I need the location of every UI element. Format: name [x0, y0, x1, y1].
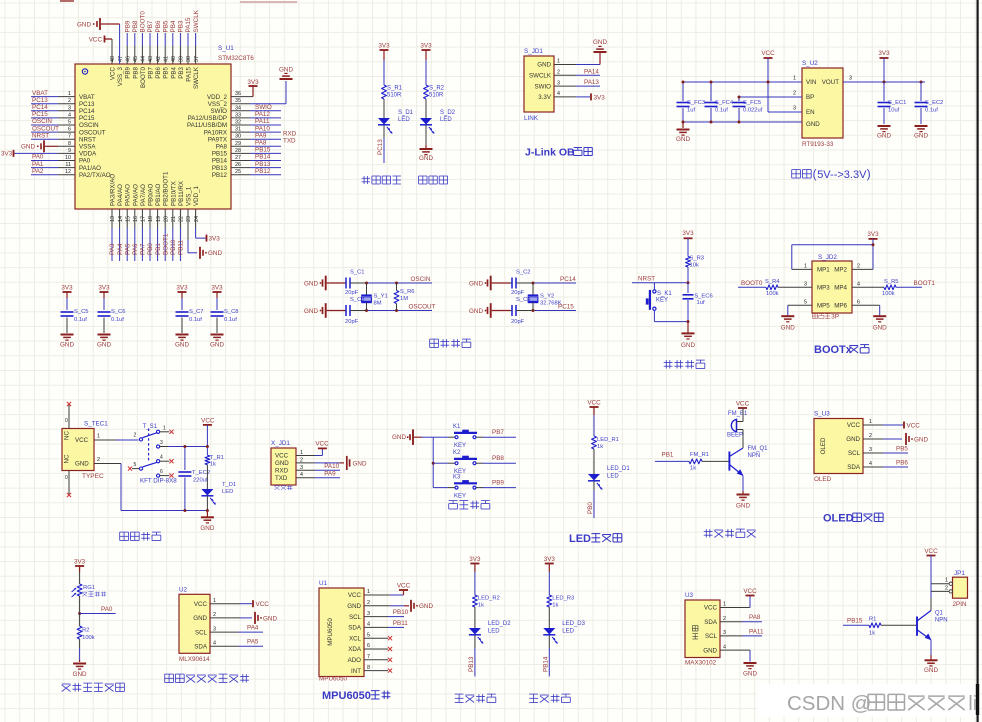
svg-text:VCC: VCC: [201, 417, 215, 424]
svg-text:VCC: VCC: [704, 605, 718, 612]
svg-text:KEY: KEY: [454, 443, 466, 449]
svg-text:21: 21: [171, 216, 177, 222]
svg-text:U2: U2: [179, 586, 188, 593]
svg-text:1k: 1k: [597, 444, 603, 450]
svg-text:37: 37: [194, 56, 200, 62]
svg-text:PB3: PB3: [178, 20, 185, 32]
svg-text:GND: GND: [304, 280, 318, 287]
svg-text:PC14: PC14: [79, 108, 95, 115]
svg-text:SCL: SCL: [349, 614, 362, 621]
svg-text:PA0: PA0: [101, 606, 113, 613]
svg-text:EN: EN: [806, 109, 815, 116]
svg-text:NRST: NRST: [32, 132, 49, 139]
svg-text:OSCOUT: OSCOUT: [32, 125, 59, 132]
svg-text:LED_R3: LED_R3: [552, 596, 574, 602]
svg-text:41: 41: [163, 56, 169, 62]
svg-text:VSSA: VSSA: [79, 144, 96, 151]
svg-text:PC14: PC14: [560, 276, 576, 283]
svg-text:PA5/AO: PA5/AO: [125, 184, 132, 206]
svg-text:4: 4: [367, 622, 370, 628]
svg-text:S_Y2: S_Y2: [540, 294, 554, 300]
svg-text:PA12: PA12: [255, 111, 270, 118]
svg-text:GND: GND: [75, 461, 89, 468]
svg-text:K1: K1: [453, 424, 461, 430]
svg-text:S_JD2: S_JD2: [818, 254, 837, 261]
svg-text:1k: 1k: [552, 603, 558, 609]
svg-text:GND: GND: [419, 603, 433, 610]
svg-text:S_EC2: S_EC2: [925, 100, 943, 106]
svg-text:PC15: PC15: [32, 111, 48, 118]
svg-text:510R: 510R: [387, 93, 402, 99]
svg-text:3V3: 3V3: [420, 43, 432, 50]
svg-text:GND: GND: [21, 144, 35, 151]
svg-text:J-Link OB: J-Link OB: [525, 147, 575, 159]
svg-text:K2: K2: [453, 450, 461, 456]
svg-text:PA10RX: PA10RX: [204, 129, 227, 136]
svg-text:PB8: PB8: [492, 455, 504, 462]
svg-text:PA7: PA7: [140, 243, 147, 255]
svg-text:S_EC1: S_EC1: [888, 100, 906, 106]
svg-text:16: 16: [133, 216, 139, 222]
svg-text:RG1: RG1: [83, 585, 95, 591]
svg-text:PB0: PB0: [147, 243, 154, 255]
svg-text:PA11/USB/DM: PA11/USB/DM: [187, 122, 227, 129]
svg-text:PB14: PB14: [255, 154, 271, 161]
svg-text:0.1uf: 0.1uf: [925, 108, 938, 114]
svg-text:U3: U3: [685, 592, 694, 599]
svg-text:GND: GND: [193, 615, 207, 622]
svg-text:PB10: PB10: [170, 239, 177, 255]
svg-text:5: 5: [804, 300, 807, 306]
svg-text:SWCLK: SWCLK: [193, 9, 200, 32]
svg-text:VCC: VCC: [89, 37, 103, 44]
svg-text:PA7/AO: PA7/AO: [140, 184, 147, 206]
svg-text:8: 8: [367, 665, 370, 671]
svg-text:1k: 1k: [869, 631, 875, 637]
svg-text:GND: GND: [263, 615, 277, 622]
svg-text:GND: GND: [175, 342, 189, 349]
svg-text:SWIO: SWIO: [211, 108, 228, 115]
svg-text:2: 2: [97, 457, 100, 463]
svg-text:3V3: 3V3: [378, 43, 390, 50]
svg-text:GND: GND: [924, 667, 938, 674]
svg-text:PB5: PB5: [162, 20, 169, 32]
svg-text:LED_D2: LED_D2: [488, 621, 511, 627]
svg-text:2PIN: 2PIN: [953, 601, 967, 608]
svg-text:FM_R1: FM_R1: [690, 452, 709, 458]
svg-text:PA3/RX/AO: PA3/RX/AO: [110, 174, 117, 206]
svg-text:GND: GND: [419, 155, 433, 162]
svg-text:JP1: JP1: [954, 570, 965, 577]
svg-text:RXD: RXD: [283, 130, 297, 137]
svg-text:GND: GND: [873, 324, 887, 331]
svg-text:3V3: 3V3: [209, 236, 221, 243]
svg-text:S_R5: S_R5: [884, 279, 899, 285]
svg-text:VCC: VCC: [761, 50, 775, 57]
svg-text:1k: 1k: [210, 462, 216, 468]
svg-text:OSCIN: OSCIN: [411, 276, 431, 283]
svg-text:1k: 1k: [690, 466, 696, 472]
svg-text:PB13: PB13: [212, 165, 228, 172]
svg-text:4: 4: [557, 91, 560, 97]
svg-text:S_C6: S_C6: [111, 309, 126, 315]
svg-text:3V3: 3V3: [61, 285, 73, 292]
svg-text:PA1/AO: PA1/AO: [79, 165, 101, 172]
svg-text:PB4: PB4: [170, 20, 177, 32]
svg-text:4: 4: [723, 644, 726, 650]
svg-text:19: 19: [156, 216, 162, 222]
svg-text:PA6/AO: PA6/AO: [132, 184, 139, 206]
svg-text:PC13: PC13: [377, 139, 384, 155]
svg-text:PA10: PA10: [255, 125, 270, 132]
svg-text:GND: GND: [846, 436, 860, 443]
svg-text:PB5: PB5: [163, 66, 170, 78]
svg-text:GND: GND: [279, 67, 293, 74]
svg-text:VCC: VCC: [924, 548, 938, 555]
svg-text:LED_R2: LED_R2: [478, 596, 500, 602]
svg-text:100k: 100k: [82, 635, 95, 641]
svg-text:LED: LED: [440, 117, 452, 123]
svg-text:20pF: 20pF: [511, 290, 525, 296]
svg-text:PB10: PB10: [393, 609, 409, 616]
svg-text:1M: 1M: [400, 296, 408, 302]
svg-text:0.022uf: 0.022uf: [743, 108, 763, 114]
svg-text:): ): [867, 169, 871, 181]
svg-text:GND: GND: [877, 133, 891, 140]
svg-text:SWCLK: SWCLK: [529, 73, 552, 80]
svg-text:3: 3: [213, 626, 216, 632]
svg-text:1: 1: [945, 578, 948, 584]
svg-text:10k: 10k: [690, 263, 699, 269]
svg-text:3V3: 3V3: [247, 79, 259, 86]
svg-text:43: 43: [148, 56, 154, 62]
svg-text:FM_Q1: FM_Q1: [748, 446, 769, 452]
svg-text:KFT DIP-8X8: KFT DIP-8X8: [140, 478, 177, 485]
svg-text:GND: GND: [97, 342, 111, 349]
svg-text:PB10/TX: PB10/TX: [170, 181, 177, 206]
svg-text:LINK: LINK: [524, 115, 539, 122]
svg-text:PB11: PB11: [178, 240, 185, 255]
svg-text:PC15: PC15: [79, 115, 95, 122]
svg-text:S_JD1: S_JD1: [524, 48, 543, 55]
svg-text:MPU6050: MPU6050: [322, 690, 371, 702]
svg-text:OSCOUT: OSCOUT: [409, 304, 436, 311]
svg-text:1: 1: [869, 419, 872, 425]
svg-text:SDA: SDA: [348, 625, 362, 632]
svg-text:LED_D1: LED_D1: [607, 466, 630, 472]
svg-text:XDA: XDA: [348, 646, 362, 653]
svg-text:1: 1: [163, 425, 166, 431]
svg-text:PB9: PB9: [124, 20, 131, 32]
svg-text:MP4: MP4: [834, 285, 847, 292]
svg-text:PC15: PC15: [558, 304, 574, 311]
svg-text:PA4: PA4: [117, 243, 124, 255]
svg-text:PB12: PB12: [255, 168, 271, 175]
svg-text:VCC: VCC: [256, 601, 270, 608]
svg-text:LED: LED: [562, 629, 574, 635]
svg-text:GND: GND: [681, 342, 695, 349]
svg-text:GND: GND: [806, 121, 820, 128]
svg-text:VCC: VCC: [743, 588, 757, 595]
svg-text:VCC: VCC: [194, 601, 208, 608]
svg-text:S_D2: S_D2: [440, 110, 456, 116]
svg-text:3V3: 3V3: [544, 556, 556, 563]
svg-text:3V3: 3V3: [878, 50, 890, 57]
svg-text:TYPEC: TYPEC: [82, 473, 104, 480]
svg-text:S_R3: S_R3: [690, 256, 705, 262]
svg-text:VCC: VCC: [348, 592, 362, 599]
svg-text:17: 17: [141, 216, 147, 222]
svg-text:GND: GND: [60, 342, 74, 349]
svg-text:PA8: PA8: [255, 140, 267, 147]
svg-text:VSS_2: VSS_2: [208, 101, 228, 108]
svg-text:3: 3: [849, 76, 852, 82]
svg-text:PB1: PB1: [662, 452, 674, 459]
svg-text:PA3: PA3: [109, 243, 116, 255]
svg-text:6: 6: [367, 643, 370, 649]
svg-text:PA9: PA9: [324, 470, 336, 477]
svg-text:0: 0: [65, 418, 68, 424]
svg-text:MP6: MP6: [834, 303, 847, 310]
svg-text:PB14: PB14: [212, 158, 228, 165]
svg-text:PA11: PA11: [749, 628, 764, 635]
svg-text:S_EC6: S_EC6: [694, 293, 712, 299]
svg-text:22: 22: [179, 216, 185, 222]
svg-text:PA9TX: PA9TX: [208, 136, 227, 143]
svg-text:VBAT: VBAT: [32, 90, 48, 97]
svg-text:PB9: PB9: [125, 66, 132, 78]
svg-text:VDD_2: VDD_2: [207, 94, 228, 101]
svg-text:PA6: PA6: [132, 243, 139, 255]
svg-text:3: 3: [160, 440, 163, 446]
svg-text:PA10: PA10: [324, 463, 339, 470]
svg-text:S_U3: S_U3: [814, 411, 830, 418]
svg-text:T_S1: T_S1: [143, 424, 158, 430]
svg-text:OSCIN: OSCIN: [79, 122, 99, 129]
svg-text:GND: GND: [676, 136, 690, 143]
svg-text:10uf: 10uf: [888, 108, 900, 114]
svg-text:VDD_1: VDD_1: [193, 185, 200, 206]
svg-text:S_C4: S_C4: [516, 297, 531, 303]
svg-text:NC: NC: [64, 454, 71, 463]
svg-text:GND: GND: [537, 62, 551, 69]
svg-text:S_Y1: S_Y1: [374, 294, 388, 300]
svg-text:SWIO: SWIO: [535, 83, 552, 90]
svg-text:0.1uf: 0.1uf: [74, 317, 87, 323]
svg-text:3V3: 3V3: [682, 230, 694, 237]
svg-text:PB15: PB15: [847, 618, 863, 625]
svg-text:44: 44: [141, 56, 147, 62]
svg-text:PB6: PB6: [896, 460, 908, 467]
svg-text:MLX90614: MLX90614: [179, 656, 210, 663]
svg-text:3: 3: [869, 447, 872, 453]
svg-text:S_R4: S_R4: [765, 279, 780, 285]
svg-text:SCL: SCL: [848, 450, 861, 457]
svg-text:PB1: PB1: [155, 243, 162, 255]
svg-text:CSDN @: CSDN @: [787, 692, 872, 715]
svg-text:100k: 100k: [766, 291, 779, 297]
svg-text:RXD: RXD: [275, 468, 289, 475]
svg-text:2: 2: [557, 70, 560, 76]
svg-text:BOOT0: BOOT0: [140, 66, 147, 88]
svg-text:NRST: NRST: [638, 276, 655, 283]
svg-text:VOUT: VOUT: [822, 79, 839, 86]
svg-text:MAX30102: MAX30102: [685, 660, 717, 667]
svg-text:S_C1: S_C1: [350, 270, 365, 276]
svg-text:PB4: PB4: [170, 66, 177, 78]
svg-text:MP3: MP3: [817, 285, 830, 292]
svg-text:PB8: PB8: [132, 66, 139, 78]
svg-text:GND: GND: [469, 308, 483, 315]
svg-text:SDA: SDA: [704, 619, 718, 626]
svg-text:KEY: KEY: [454, 494, 466, 500]
svg-text:3: 3: [804, 282, 807, 288]
svg-text:NC: NC: [64, 431, 71, 440]
svg-text:PA0: PA0: [32, 154, 44, 161]
svg-text:LED: LED: [488, 629, 500, 635]
svg-text:NRST: NRST: [79, 136, 96, 143]
svg-text:S_U1: S_U1: [218, 45, 234, 52]
svg-text:MP2: MP2: [834, 267, 847, 274]
svg-text:3V3: 3V3: [176, 285, 188, 292]
svg-text:SDA: SDA: [194, 644, 208, 651]
svg-text:GND: GND: [77, 21, 91, 28]
svg-text:GND: GND: [593, 39, 607, 46]
svg-text:SWCLK: SWCLK: [193, 66, 200, 89]
svg-text:BOOT1: BOOT1: [162, 233, 169, 255]
svg-text:VCC: VCC: [275, 453, 289, 460]
svg-text:PB8: PB8: [132, 20, 139, 32]
svg-text:VCC: VCC: [110, 66, 117, 80]
svg-text:PB14: PB14: [542, 656, 549, 672]
svg-text:GND: GND: [200, 525, 214, 532]
svg-text:VCC: VCC: [75, 437, 89, 444]
svg-text:220uf: 220uf: [193, 478, 208, 484]
svg-text:S_C5: S_C5: [74, 309, 89, 315]
svg-text:PA1: PA1: [32, 161, 44, 168]
svg-text:15: 15: [125, 216, 131, 222]
svg-text:510R: 510R: [429, 93, 444, 99]
svg-text:PB12: PB12: [212, 172, 228, 179]
svg-text:OSCOUT: OSCOUT: [79, 129, 106, 136]
svg-text:1uf: 1uf: [687, 108, 695, 114]
svg-text:6: 6: [160, 469, 163, 475]
svg-text:T_D1: T_D1: [222, 482, 236, 488]
svg-text:PA5: PA5: [124, 243, 131, 255]
svg-text:0.1uf: 0.1uf: [189, 317, 202, 323]
svg-text:U1: U1: [319, 580, 328, 587]
svg-text:RT9193-33: RT9193-33: [802, 141, 834, 148]
svg-text:SCL: SCL: [705, 633, 718, 640]
svg-text:PB5: PB5: [896, 446, 908, 453]
svg-text:PA15: PA15: [186, 66, 193, 81]
svg-text:Q1: Q1: [935, 611, 944, 617]
svg-text:S_FC5: S_FC5: [743, 100, 761, 106]
svg-text:6: 6: [857, 300, 860, 306]
svg-text:PB6: PB6: [155, 66, 162, 78]
svg-text:VCC: VCC: [907, 422, 921, 429]
svg-text:2: 2: [793, 91, 796, 97]
svg-text:8M: 8M: [374, 301, 382, 307]
svg-text:VCC: VCC: [315, 440, 329, 447]
svg-text:GND: GND: [208, 250, 222, 257]
svg-text:SCL: SCL: [195, 629, 208, 636]
svg-text:OSCIN: OSCIN: [32, 118, 52, 125]
svg-text:GND: GND: [347, 603, 361, 610]
svg-text:LED: LED: [607, 474, 619, 480]
svg-text:PA15: PA15: [185, 17, 192, 32]
svg-text:OLED: OLED: [823, 513, 854, 525]
svg-text:PB7: PB7: [147, 20, 154, 32]
svg-text:VCC: VCC: [397, 582, 411, 589]
svg-text:PA2/TX/AO: PA2/TX/AO: [79, 172, 111, 179]
svg-text:0.1uf: 0.1uf: [224, 317, 237, 323]
svg-text:FM_B1: FM_B1: [728, 411, 748, 417]
svg-text:3V3: 3V3: [594, 94, 606, 101]
svg-text:1: 1: [213, 598, 216, 604]
svg-text:24: 24: [194, 216, 200, 222]
svg-text:TXD: TXD: [283, 137, 296, 144]
svg-text:PB1/AO: PB1/AO: [155, 183, 162, 206]
svg-text:18: 18: [148, 216, 154, 222]
svg-text:PB2/BOOT1: PB2/BOOT1: [163, 171, 170, 206]
svg-text:MPU6050: MPU6050: [319, 676, 347, 683]
svg-text:3: 3: [557, 80, 560, 86]
svg-text:PA12/USB/DP: PA12/USB/DP: [188, 115, 227, 122]
svg-text:45: 45: [133, 56, 139, 62]
svg-text:li: li: [968, 692, 977, 715]
svg-text:S_R1: S_R1: [387, 86, 403, 92]
svg-text:GND: GND: [914, 436, 928, 443]
svg-text:2: 2: [723, 616, 726, 622]
svg-text:GND: GND: [73, 671, 87, 678]
svg-text:2: 2: [367, 600, 370, 606]
svg-text:PB0: PB0: [587, 502, 594, 514]
svg-text:VCC: VCC: [587, 400, 601, 407]
svg-text:BEEP: BEEP: [727, 433, 743, 439]
svg-text:BOOTx: BOOTx: [814, 344, 853, 356]
svg-text:S_K1: S_K1: [657, 291, 672, 297]
svg-text:ADO: ADO: [348, 657, 362, 664]
svg-text:3V3: 3V3: [211, 285, 223, 292]
svg-text:X_JD1: X_JD1: [271, 440, 290, 447]
svg-text:20pF: 20pF: [345, 319, 359, 325]
svg-text:3V3: 3V3: [867, 231, 879, 238]
svg-text:PB3: PB3: [178, 66, 185, 78]
svg-text:3: 3: [367, 611, 370, 617]
svg-text:PB13: PB13: [468, 656, 475, 672]
svg-text:14: 14: [118, 216, 124, 222]
svg-text:1: 1: [804, 264, 807, 270]
svg-text:0.1uf: 0.1uf: [111, 317, 124, 323]
svg-text:XCL: XCL: [349, 635, 362, 642]
svg-text:100k: 100k: [882, 291, 895, 297]
svg-text:VCC: VCC: [847, 422, 861, 429]
svg-text:S_C7: S_C7: [189, 309, 204, 315]
svg-text:42: 42: [156, 56, 162, 62]
svg-text:NPN: NPN: [748, 453, 761, 459]
svg-text:PB15: PB15: [255, 147, 271, 154]
svg-text:GND: GND: [743, 671, 757, 678]
svg-text:INT: INT: [351, 668, 361, 675]
svg-text:1: 1: [557, 59, 560, 65]
svg-text:S_C3: S_C3: [350, 297, 365, 303]
svg-text:GND: GND: [736, 503, 750, 510]
svg-text:PA9: PA9: [255, 132, 267, 139]
svg-text:OLED: OLED: [814, 476, 832, 483]
svg-text:3V3: 3V3: [74, 559, 86, 566]
svg-text:T_R1: T_R1: [210, 455, 224, 461]
